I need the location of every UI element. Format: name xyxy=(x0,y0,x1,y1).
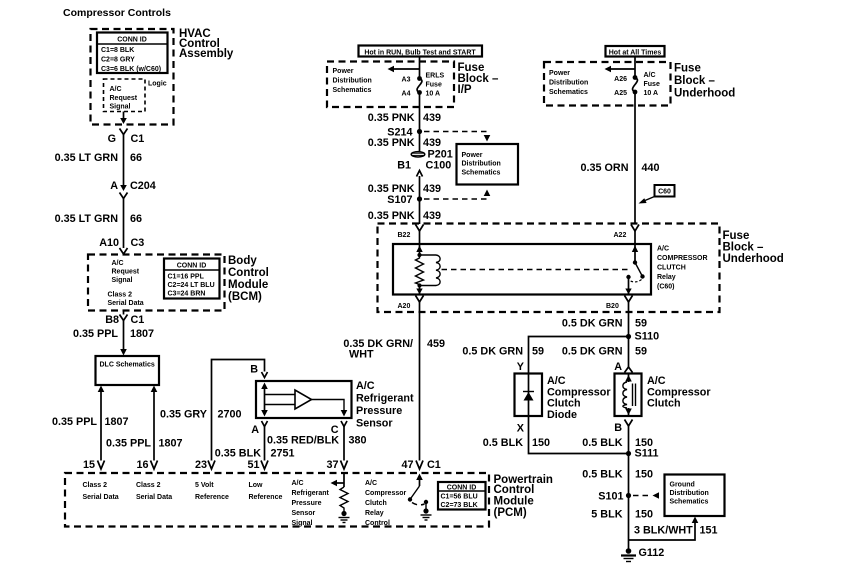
logic box: A/C Request Signal xyxy=(104,79,167,112)
svg-text:Compressor Controls: Compressor Controls xyxy=(63,7,171,19)
dashed link: S107 to Power Distribution Schematics xyxy=(424,190,490,200)
svg-text:C3=6 BLK (w/C60): C3=6 BLK (w/C60) xyxy=(101,66,161,73)
svg-text:0.5 BLK: 0.5 BLK xyxy=(582,437,622,449)
svg-text:Fuse: Fuse xyxy=(674,63,701,75)
svg-text:66: 66 xyxy=(130,152,142,164)
svg-text:B8: B8 xyxy=(105,314,119,326)
svg-text:Power: Power xyxy=(462,152,483,159)
svg-text:3 BLK/WHT: 3 BLK/WHT xyxy=(634,525,693,537)
HVAC CONN ID table xyxy=(97,33,168,74)
relay coil output to A20 with down arrow xyxy=(416,283,422,294)
svg-text:A3: A3 xyxy=(402,77,411,84)
connector: relay pin A22 xyxy=(614,225,640,240)
svg-text:Distribution: Distribution xyxy=(333,78,372,85)
svg-text:Reference: Reference xyxy=(195,494,229,501)
svg-text:COMPRESSOR: COMPRESSOR xyxy=(657,255,708,262)
svg-text:59: 59 xyxy=(635,346,647,358)
relay switch: wire in from A22 with up arrow xyxy=(632,231,638,265)
sensor internal: return arrow down xyxy=(261,410,268,417)
svg-text:Control: Control xyxy=(494,484,535,496)
svg-text:0.35 BLK: 0.35 BLK xyxy=(215,448,261,460)
svg-text:B1: B1 xyxy=(397,160,411,172)
connector: PCM pin 37 xyxy=(326,459,347,471)
relay switch output to B20 with down arrow xyxy=(625,277,631,294)
svg-text:0.5 DK GRN: 0.5 DK GRN xyxy=(562,346,623,358)
svg-text:Refrigerant: Refrigerant xyxy=(292,490,330,497)
svg-text:Clutch: Clutch xyxy=(647,398,681,410)
svg-text:0.35 PPL: 0.35 PPL xyxy=(73,328,118,340)
PCM text: Class 2 Serial Data (pin 16) xyxy=(136,482,172,501)
connector: clutch pin A xyxy=(614,361,632,373)
wire: 0.35 PNK 439 (fuse to S214) xyxy=(368,93,441,132)
svg-text:Relay: Relay xyxy=(365,510,384,517)
connector: PCM pin 51 xyxy=(247,459,268,471)
BCM text: A/C Request Signal xyxy=(112,260,140,284)
connector: sensor pin B xyxy=(250,364,267,378)
ground G112 xyxy=(621,547,664,562)
svg-text:Class 2: Class 2 xyxy=(136,482,161,489)
svg-text:15: 15 xyxy=(83,459,95,471)
fuse A/C 10A with pins A26/A25 xyxy=(614,72,660,97)
svg-text:150: 150 xyxy=(635,509,653,521)
svg-text:A/C: A/C xyxy=(657,246,669,253)
svg-text:0.35 ORN: 0.35 ORN xyxy=(580,162,628,174)
BCM CONN ID table xyxy=(164,259,220,299)
connector label C60 xyxy=(639,185,675,204)
svg-text:37: 37 xyxy=(326,459,338,471)
svg-text:0.5 BLK: 0.5 BLK xyxy=(483,437,523,449)
svg-text:0.35 PNK: 0.35 PNK xyxy=(368,112,415,124)
svg-text:Control: Control xyxy=(228,267,269,279)
wire: logic box to HVAC edge with arrow xyxy=(120,112,127,125)
svg-text:S101: S101 xyxy=(598,491,623,503)
svg-text:A25: A25 xyxy=(614,90,627,97)
svg-text:Diode: Diode xyxy=(547,409,577,421)
relay switch blade xyxy=(626,263,644,282)
splice S111 xyxy=(626,448,659,460)
svg-text:0.35 GRY: 0.35 GRY xyxy=(160,409,208,421)
svg-text:0.35 RED/BLK: 0.35 RED/BLK xyxy=(267,435,339,447)
Fuse Block Underhood relay dashed box xyxy=(378,224,784,313)
wire: 0.35 PPL 1807 (BCM to DLC) xyxy=(73,311,154,356)
wire: 0.35 DK GRN/WHT 459 (relay A20 to PCM pin 47) xyxy=(343,302,445,461)
PCM internal: pressure sensor signal resistor with arrow and ground xyxy=(331,472,350,523)
svg-text:439: 439 xyxy=(423,210,441,222)
wire: 0.35 PNK 439 (S214 to C100) xyxy=(368,132,441,152)
svg-text:C60: C60 xyxy=(658,189,671,196)
BCM text: Class 2 Serial Data xyxy=(108,292,144,308)
relay actuation dashed line xyxy=(442,269,631,271)
svg-text:Serial Data: Serial Data xyxy=(108,300,144,307)
svg-text:CONN ID: CONN ID xyxy=(177,263,207,270)
svg-text:1807: 1807 xyxy=(105,416,129,428)
svg-text:0.35 PPL: 0.35 PPL xyxy=(106,438,151,450)
svg-text:Clutch: Clutch xyxy=(365,500,387,507)
wire: 0.35 LT GRN 66 (HVAC to C204) xyxy=(55,134,142,185)
svg-text:A: A xyxy=(110,180,118,192)
svg-text:CONN ID: CONN ID xyxy=(117,37,147,44)
svg-text:1807: 1807 xyxy=(130,328,154,340)
svg-text:C2=73 BLK: C2=73 BLK xyxy=(441,502,478,509)
svg-text:5 BLK: 5 BLK xyxy=(591,509,622,521)
svg-text:47: 47 xyxy=(401,459,413,471)
svg-text:Control: Control xyxy=(365,520,390,527)
clutch coil symbol xyxy=(623,374,636,417)
svg-text:A/C: A/C xyxy=(365,480,377,487)
svg-text:1807: 1807 xyxy=(159,438,183,450)
svg-text:A26: A26 xyxy=(614,76,627,83)
sensor internal: amplifier triangle xyxy=(265,390,348,417)
svg-text:DLC Schematics: DLC Schematics xyxy=(100,362,155,369)
wire: 0.35 GRY 2700 (pin 23 up and over to sensor pin B) xyxy=(160,360,265,461)
svg-text:Serial Data: Serial Data xyxy=(136,494,172,501)
svg-text:Block –: Block – xyxy=(723,242,765,254)
svg-text:Schematics: Schematics xyxy=(549,89,588,96)
underhood text: Power Distribution Schematics xyxy=(549,70,588,96)
svg-text:Underhood: Underhood xyxy=(674,88,735,100)
svg-text:0.35 PNK: 0.35 PNK xyxy=(368,210,415,222)
svg-text:Class 2: Class 2 xyxy=(83,482,108,489)
connector: PCM pin 15 xyxy=(83,459,105,471)
connector C1 pin B8 xyxy=(105,314,144,326)
svg-text:10 A: 10 A xyxy=(644,90,659,97)
splice S110 xyxy=(626,331,659,343)
splice S214 xyxy=(387,127,422,139)
wire: 0.35 PPL 1807 (pin 16 to DLC) xyxy=(106,386,183,461)
A/C Refrigerant Pressure Sensor box xyxy=(256,380,414,430)
connector: PCM pin 23 xyxy=(195,459,215,471)
connector: relay pin B20 xyxy=(606,296,633,311)
svg-text:0.35 LT GRN: 0.35 LT GRN xyxy=(55,213,119,225)
PCM text: A/C Compressor Clutch Relay Control xyxy=(365,480,407,527)
svg-text:66: 66 xyxy=(130,213,142,225)
wire: 3 BLK/WHT 151 (ground distribution to G112) xyxy=(629,517,718,541)
svg-text:0.5 DK GRN: 0.5 DK GRN xyxy=(462,346,523,358)
svg-text:Power: Power xyxy=(333,68,354,75)
svg-text:59: 59 xyxy=(635,318,647,330)
svg-text:(BCM): (BCM) xyxy=(228,291,262,303)
wire: 0.5 BLK 150 (S111 to S101) xyxy=(582,454,653,496)
svg-text:59: 59 xyxy=(532,346,544,358)
svg-text:5 Volt: 5 Volt xyxy=(195,482,214,489)
HVAC Control Assembly dashed box xyxy=(91,28,234,125)
svg-text:G112: G112 xyxy=(639,547,665,559)
svg-text:Sensor: Sensor xyxy=(292,510,316,517)
svg-text:16: 16 xyxy=(136,459,148,471)
svg-text:Signal: Signal xyxy=(110,104,131,111)
wire: 0.5 DK GRN 59 (S110 to clutch A) xyxy=(562,337,647,368)
svg-text:440: 440 xyxy=(642,162,660,174)
wire: 0.35 RED/BLK 380 (sensor C to pin 37) xyxy=(267,427,367,461)
Fuse Block I/P text: Power Distribution Schematics xyxy=(333,68,372,94)
wire: feed into ERLS fuse xyxy=(419,57,421,79)
connector: PCM pin 47 C1 xyxy=(401,459,440,471)
PCM text: 5 Volt Reference xyxy=(195,482,229,501)
connector: relay pin B22 xyxy=(398,225,424,240)
Fuse Block Underhood dashed box (top) xyxy=(544,62,735,106)
title: Compressor Controls xyxy=(63,7,171,19)
Ground Distribution Schematics box xyxy=(665,475,725,517)
svg-text:Fuse: Fuse xyxy=(644,81,660,88)
arrow: to power distribution schematics (left) xyxy=(605,66,636,73)
wire: feed into A/C fuse xyxy=(634,57,636,78)
svg-text:C1: C1 xyxy=(131,133,145,145)
svg-text:Request: Request xyxy=(112,269,140,276)
svg-text:Pressure: Pressure xyxy=(292,500,322,507)
Hot at All Times label box xyxy=(606,46,665,57)
arrow: to power distribution schematics (left) xyxy=(388,66,420,73)
svg-text:Class 2: Class 2 xyxy=(108,292,133,299)
wire: 0.5 DK GRN 59 (relay B20 to S110) xyxy=(562,302,647,337)
relay resistor xyxy=(416,255,424,286)
svg-text:ERLS: ERLS xyxy=(426,73,445,80)
svg-text:S111: S111 xyxy=(635,448,659,460)
svg-text:Compressor: Compressor xyxy=(365,490,407,497)
splice S107 xyxy=(387,194,422,206)
svg-text:0.5 DK GRN: 0.5 DK GRN xyxy=(562,318,623,330)
svg-text:Module: Module xyxy=(494,496,534,508)
svg-text:C1: C1 xyxy=(427,459,441,471)
svg-text:0.35 PNK: 0.35 PNK xyxy=(368,137,415,149)
svg-text:A20: A20 xyxy=(398,303,411,310)
connector: clutch pin B xyxy=(614,420,632,435)
svg-text:Distribution: Distribution xyxy=(670,490,709,497)
svg-text:Block –: Block – xyxy=(674,75,716,87)
connector C3 pin A10 xyxy=(99,237,144,254)
Power Distribution Schematics box xyxy=(457,144,519,185)
svg-text:439: 439 xyxy=(423,183,441,195)
svg-text:Request: Request xyxy=(110,95,138,102)
svg-text:A/C: A/C xyxy=(112,260,124,267)
splice S101 with dashed link to ground distribution xyxy=(598,491,659,503)
svg-text:S107: S107 xyxy=(387,194,412,206)
svg-text:A/C: A/C xyxy=(647,375,666,387)
svg-text:C1=56 BLU: C1=56 BLU xyxy=(441,494,478,501)
svg-text:Ground: Ground xyxy=(670,482,695,489)
fuse ERLS 10A with pins A3/A4 xyxy=(402,73,445,98)
wire: 0.5 BLK 150 (diode X to S111) xyxy=(483,416,629,454)
svg-text:B20: B20 xyxy=(606,303,619,310)
svg-text:A/C: A/C xyxy=(356,380,375,392)
Body Control Module dashed box xyxy=(88,255,269,311)
svg-text:Low: Low xyxy=(249,482,264,489)
svg-text:Underhood: Underhood xyxy=(723,253,784,265)
svg-text:C3: C3 xyxy=(131,237,145,249)
svg-text:380: 380 xyxy=(349,435,367,447)
svg-text:B22: B22 xyxy=(398,232,411,239)
PCM CONN ID table xyxy=(438,482,486,510)
wire: 0.35 PPL 1807 (pin 15 to DLC) xyxy=(52,386,129,461)
svg-text:Hot at All Times: Hot at All Times xyxy=(609,50,662,57)
connector: sensor pin C xyxy=(331,421,347,436)
svg-text:150: 150 xyxy=(532,437,550,449)
svg-text:A10: A10 xyxy=(99,237,119,249)
wire: 0.35 PNK 439 (C100 to S107) xyxy=(368,176,441,199)
svg-text:0.35 PPL: 0.35 PPL xyxy=(52,416,97,428)
wire: 5 BLK 150 (S101 to G112) xyxy=(591,496,653,552)
svg-text:150: 150 xyxy=(635,469,653,481)
wire: 0.35 LT GRN 66 (C204 to BCM) xyxy=(55,199,142,249)
PCM text: Low Reference xyxy=(249,482,283,501)
svg-text:Relay: Relay xyxy=(657,274,676,281)
svg-text:A/C: A/C xyxy=(292,480,304,487)
diode symbol xyxy=(523,374,534,417)
wire: 0.35 BLK 2751 (sensor A to pin 51) xyxy=(215,427,295,461)
svg-text:Schematics: Schematics xyxy=(333,87,372,94)
svg-text:Signal: Signal xyxy=(292,520,313,527)
svg-text:A: A xyxy=(614,361,622,373)
svg-text:A/C: A/C xyxy=(547,375,566,387)
connector: PCM pin 16 xyxy=(136,459,157,471)
svg-text:Pressure: Pressure xyxy=(356,405,402,417)
relay coil xyxy=(420,255,441,286)
svg-text:Fuse: Fuse xyxy=(723,230,750,242)
svg-text:439: 439 xyxy=(423,112,441,124)
svg-text:WHT: WHT xyxy=(349,349,374,361)
svg-text:Serial Data: Serial Data xyxy=(83,494,119,501)
svg-text:2700: 2700 xyxy=(218,409,242,421)
Powertrain Control Module dashed box xyxy=(65,473,553,527)
svg-text:Y: Y xyxy=(517,361,525,373)
svg-text:A22: A22 xyxy=(614,232,627,239)
sensor internal: supply arrow up xyxy=(261,383,268,413)
wire: 0.5 DK GRN 59 branch (S110 to diode Y) xyxy=(462,337,628,374)
svg-text:G: G xyxy=(108,133,116,145)
svg-text:151: 151 xyxy=(700,525,718,537)
A/C Compressor Clutch Relay box xyxy=(393,244,708,295)
svg-text:Logic: Logic xyxy=(148,81,167,88)
A/C Compressor Clutch Diode box xyxy=(515,374,612,422)
svg-text:C2=8 GRY: C2=8 GRY xyxy=(101,57,135,64)
svg-text:A4: A4 xyxy=(402,91,411,98)
PCM text: A/C Refrigerant Pressure Sensor Signal xyxy=(292,480,330,527)
svg-text:A/C: A/C xyxy=(110,86,122,93)
svg-text:Assembly: Assembly xyxy=(179,48,234,60)
svg-text:459: 459 xyxy=(427,338,445,350)
Fuse Block I/P dashed box xyxy=(327,62,499,108)
connector C100 pin B1 (P201 pass-through) xyxy=(397,149,453,177)
svg-text:Signal: Signal xyxy=(112,277,133,284)
svg-text:51: 51 xyxy=(247,459,259,471)
wire: 0.5 BLK 150 (clutch B to S111) xyxy=(582,426,653,454)
svg-text:S110: S110 xyxy=(635,331,660,343)
connector: sensor pin A xyxy=(251,421,267,436)
DLC Schematics box xyxy=(96,356,160,385)
svg-text:Module: Module xyxy=(228,279,268,291)
svg-text:Schematics: Schematics xyxy=(670,499,709,506)
svg-text:Distribution: Distribution xyxy=(549,80,588,87)
svg-text:C1=16 PPL: C1=16 PPL xyxy=(168,274,205,281)
svg-text:A/C: A/C xyxy=(644,72,656,79)
connector C1 pin G xyxy=(108,129,145,146)
svg-text:C204: C204 xyxy=(130,180,156,192)
svg-text:Distribution: Distribution xyxy=(462,161,501,168)
svg-text:C3=24 BRN: C3=24 BRN xyxy=(168,291,206,298)
svg-text:Refrigerant: Refrigerant xyxy=(356,393,414,405)
svg-text:X: X xyxy=(517,423,525,435)
svg-text:(C60): (C60) xyxy=(657,284,675,291)
svg-text:I/P: I/P xyxy=(458,84,472,96)
svg-text:Body: Body xyxy=(228,255,257,267)
svg-text:0.35 LT GRN: 0.35 LT GRN xyxy=(55,152,119,164)
PCM text: Class 2 Serial Data (pin 15) xyxy=(83,482,119,501)
svg-text:Reference: Reference xyxy=(249,494,283,501)
svg-text:CLUTCH: CLUTCH xyxy=(657,265,686,272)
wire: 0.35 PNK 439 (S107 to fuse block underhood B22) xyxy=(368,199,441,224)
connector C204 pin A xyxy=(110,180,156,199)
svg-text:(PCM): (PCM) xyxy=(494,507,527,519)
svg-text:C2=24 LT BLU: C2=24 LT BLU xyxy=(168,282,215,289)
svg-text:C1: C1 xyxy=(131,314,145,326)
svg-text:B: B xyxy=(250,364,258,376)
svg-text:Power: Power xyxy=(549,70,570,77)
svg-text:B: B xyxy=(614,422,622,434)
svg-text:Hot in RUN, Bulb Test and STAR: Hot in RUN, Bulb Test and START xyxy=(364,50,476,57)
svg-text:439: 439 xyxy=(423,137,441,149)
svg-text:Sensor: Sensor xyxy=(356,418,393,430)
wire: 0.35 ORN 440 (fuse to relay A22) xyxy=(580,92,659,224)
relay coil branch: wire in from B22 with up arrow xyxy=(416,231,422,257)
svg-text:10 A: 10 A xyxy=(426,91,441,98)
svg-text:23: 23 xyxy=(195,459,207,471)
svg-text:A: A xyxy=(251,424,259,436)
svg-text:Clutch: Clutch xyxy=(547,398,581,410)
svg-text:C1=8 BLK: C1=8 BLK xyxy=(101,47,134,54)
svg-text:2751: 2751 xyxy=(271,448,295,460)
Hot in RUN, Bulb Test and START label box xyxy=(359,46,483,57)
PCM internal: clutch relay control switch with ground xyxy=(408,474,432,521)
dashed link: S214 to Power Distribution Schematics xyxy=(424,132,490,142)
svg-text:C100: C100 xyxy=(426,160,452,172)
svg-text:0.5 BLK: 0.5 BLK xyxy=(582,469,622,481)
connector: relay pin A20 xyxy=(398,296,424,311)
svg-text:Schematics: Schematics xyxy=(462,170,501,177)
svg-text:Fuse: Fuse xyxy=(426,82,442,89)
A/C Compressor Clutch box xyxy=(615,374,712,417)
